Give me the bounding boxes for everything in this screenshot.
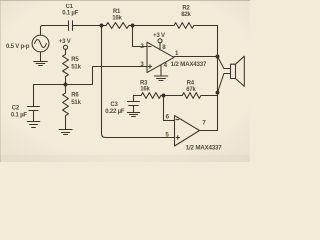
wire C3 to R3 xyxy=(134,95,142,97)
node A xyxy=(100,24,104,28)
resistor R6 xyxy=(63,85,69,130)
resistor R5 xyxy=(63,54,69,76)
op-amp U2 1/2 MAX4337 xyxy=(175,116,200,147)
ground (C2) xyxy=(27,122,40,128)
ground (source) xyxy=(34,62,48,66)
wire +3V to R5 xyxy=(65,49,67,54)
node output 1 xyxy=(216,55,220,59)
node output 2 xyxy=(216,91,220,95)
wire R4 to right rail xyxy=(201,95,218,97)
speaker xyxy=(231,56,245,86)
node B xyxy=(64,83,68,87)
node pin 6 xyxy=(162,94,166,98)
wire right vertical rail xyxy=(217,26,219,131)
amp1 output wire xyxy=(174,56,218,58)
source stem bottom xyxy=(40,52,42,61)
wire bias to pin 3 xyxy=(66,67,148,85)
wire top rail mid xyxy=(73,25,106,27)
wire pin2 drop xyxy=(133,26,148,47)
capacitor C2 xyxy=(28,107,40,111)
capacitor C1 xyxy=(69,21,73,31)
wire R5 to node B xyxy=(65,77,67,85)
amp2 output wire xyxy=(200,130,218,132)
wire R3 to node pin6 xyxy=(161,95,182,97)
source stem top xyxy=(41,26,43,36)
capacitor C3 xyxy=(128,96,140,112)
ground (C3) xyxy=(127,113,139,117)
op-amp U1 1/2 MAX4337 xyxy=(147,42,174,72)
speaker wires xyxy=(218,57,231,93)
ground (R6) xyxy=(59,130,72,135)
pin 4 ground xyxy=(160,65,162,76)
ground (U1 pin 4) xyxy=(154,76,167,81)
node pin2 junction xyxy=(131,24,135,28)
source V1 0.5 V p-p xyxy=(32,35,49,52)
wire C2 to ground xyxy=(33,111,35,122)
resistor R2 xyxy=(174,23,194,29)
wire node B to C2 xyxy=(34,85,66,107)
resistor R3 xyxy=(141,93,161,99)
resistor R1 xyxy=(106,23,129,29)
wire node A down to pin 5 xyxy=(102,26,175,138)
wire pin6 drop xyxy=(164,96,175,121)
wire R2 to right corner xyxy=(194,25,218,27)
wire top rail left xyxy=(43,25,68,27)
resistor R4 xyxy=(182,93,201,99)
wire top rail to R2 xyxy=(129,25,174,27)
